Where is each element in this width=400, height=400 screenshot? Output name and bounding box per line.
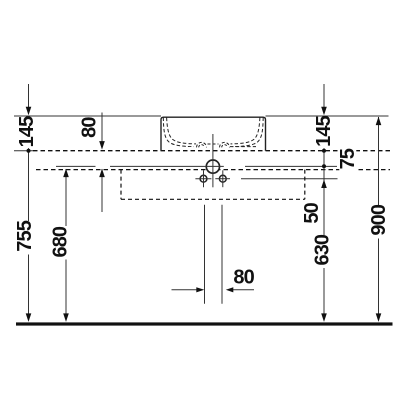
- svg-text:145: 145: [313, 115, 335, 146]
- svg-text:50: 50: [301, 202, 323, 223]
- svg-text:755: 755: [14, 220, 36, 251]
- svg-text:75: 75: [337, 148, 359, 169]
- svg-text:680: 680: [50, 226, 72, 257]
- svg-text:145: 145: [16, 116, 38, 147]
- svg-text:900: 900: [368, 204, 390, 235]
- svg-text:80: 80: [233, 266, 254, 288]
- svg-text:80: 80: [79, 117, 101, 138]
- svg-text:630: 630: [311, 234, 333, 265]
